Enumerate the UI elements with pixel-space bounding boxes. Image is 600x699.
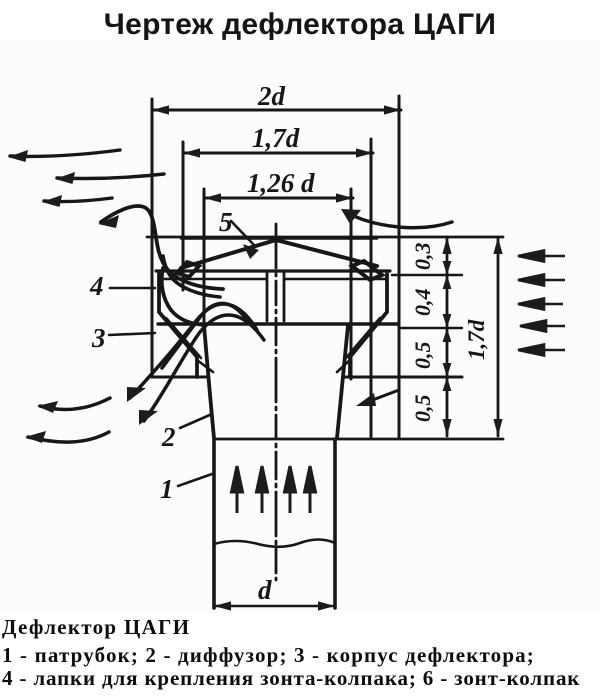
- pipe up arrow 1: [232, 466, 243, 513]
- cap top line: [147, 236, 503, 239]
- body left wall: [159, 274, 197, 377]
- pipe right wall: [333, 439, 337, 608]
- svg-text:3: 3: [91, 323, 106, 353]
- streamline S2 out of gap: [162, 268, 204, 325]
- right dim grid tick row 275: [392, 274, 462, 276]
- bracket right cap: [352, 261, 382, 280]
- body right foot link: [337, 360, 350, 372]
- body left foot link: [197, 360, 213, 372]
- arrowhead dim 1.7d left: [183, 148, 200, 157]
- svg-text:2d: 2d: [257, 81, 286, 111]
- right dim outer vertical: [497, 237, 500, 436]
- swoosh c2: [28, 432, 109, 442]
- body left inner chamfer: [166, 318, 201, 358]
- dim 1.7d line: [183, 152, 373, 155]
- arrowhead c1 tip: [37, 401, 58, 413]
- right dim inner vertical: [446, 237, 449, 436]
- arrowhead R1 tip: [127, 387, 146, 402]
- arrowhead vdim outer bottom: [493, 419, 502, 436]
- dim 2d line: [152, 109, 401, 112]
- cap cone: [181, 240, 377, 268]
- svg-text:1,7d: 1,7d: [252, 123, 300, 153]
- dim 1.26d line: [204, 197, 353, 200]
- dim 1.26d ext right: [350, 189, 353, 379]
- arrowhead vdim inner top: [442, 237, 451, 254]
- cap plate overlay: [181, 237, 377, 239]
- svg-text:0,3: 0,3: [410, 243, 435, 271]
- right arc over cap: [345, 212, 452, 228]
- slot left: [266, 272, 269, 321]
- svg-text:4: 4: [89, 271, 104, 301]
- pipe left wall: [212, 439, 216, 608]
- svg-text:0,5: 0,5: [410, 395, 435, 423]
- svg-text:0,4: 0,4: [410, 289, 435, 317]
- arrowhead R2 tip: [139, 410, 158, 425]
- right entering arrow line: [362, 390, 399, 404]
- body mid line: [158, 322, 397, 325]
- pipe up arrow 4: [305, 466, 316, 513]
- wind arrow 2: [518, 275, 565, 286]
- body bottom ring right: [343, 376, 462, 379]
- arrowhead dim 1.26d left: [204, 193, 221, 202]
- streamline fan R2: [144, 315, 264, 421]
- pipe up arrow 2: [257, 466, 268, 513]
- leader 1: [178, 474, 212, 486]
- slot right: [283, 272, 286, 321]
- svg-text:2: 2: [161, 422, 176, 452]
- arrowhead vdim inner 329: [443, 314, 452, 342]
- streamline top A2: [57, 174, 164, 179]
- streamline fan R3: [162, 303, 249, 368]
- arrowhead dim d left: [214, 601, 231, 610]
- arrowhead right arc tip: [341, 209, 361, 224]
- streamline top A1: [10, 150, 120, 156]
- svg-text:1,7d: 1,7d: [464, 319, 489, 360]
- arrowhead dim d right: [318, 601, 335, 610]
- wind arrow 3: [518, 299, 563, 310]
- dim 1.7d ext right: [370, 139, 373, 438]
- arrowhead A4 S1 tip: [98, 215, 119, 228]
- title: [0, 8, 600, 42]
- body top line: [156, 269, 390, 272]
- svg-text:1,26 d: 1,26 d: [247, 168, 315, 198]
- dim 2d ext right: [398, 96, 401, 438]
- leader 5 arrowline: [231, 221, 254, 245]
- body bottom ring left: [152, 376, 207, 379]
- pipe break wavy line: [214, 540, 335, 547]
- body top inner line: [160, 278, 386, 280]
- streamline S1 out of gap: [101, 206, 223, 289]
- streamline S3: [163, 256, 220, 297]
- arrowhead dim 2d right: [384, 105, 401, 114]
- diffuser bottom line: [214, 438, 503, 441]
- swoosh c1: [40, 398, 110, 410]
- arrowhead leader5: [243, 244, 259, 259]
- arrowhead A3: [42, 195, 62, 207]
- wind arrow 5: [518, 345, 565, 356]
- dim 2d ext left: [151, 99, 154, 377]
- svg-text:5: 5: [219, 207, 233, 237]
- streamline fan R1: [130, 304, 257, 398]
- arrowhead vdim inner 275: [443, 261, 452, 289]
- streamline top A3: [44, 198, 112, 202]
- dim 1.7d ext left: [182, 142, 185, 290]
- centerline: [275, 224, 278, 580]
- arrowhead dim 2d left: [152, 105, 169, 114]
- svg-text:d: d: [258, 575, 272, 605]
- arrowhead dim 1.26d right: [336, 193, 353, 202]
- arrowhead vdim inner 378: [443, 363, 452, 391]
- arrowhead c2 tip: [25, 431, 46, 443]
- arrowhead A1: [8, 150, 28, 162]
- body right inner chamfer: [346, 318, 380, 358]
- body right wall: [350, 274, 387, 377]
- wind arrow 1: [518, 251, 565, 262]
- wind arrow 4: [520, 321, 565, 332]
- leader 3: [109, 333, 155, 335]
- right dim grid tick row 329: [399, 327, 462, 329]
- leader 2: [180, 414, 212, 428]
- svg-text:1: 1: [160, 474, 174, 504]
- dim 1.26d ext left: [203, 189, 206, 325]
- diffuser left wall: [204, 325, 214, 438]
- arrowhead vdim inner bottom: [442, 419, 451, 436]
- arrowhead vdim outer top: [493, 237, 502, 254]
- bracket left cap: [177, 262, 199, 277]
- arrowhead right entering tip: [356, 393, 376, 406]
- leader 4: [110, 287, 155, 290]
- dim d line: [214, 605, 335, 608]
- arrowhead A2: [55, 172, 75, 184]
- svg-text:0,5: 0,5: [410, 342, 435, 370]
- diffuser right wall: [337, 325, 348, 438]
- pipe up arrow 3: [285, 466, 296, 513]
- arrowhead dim 1.7d right: [356, 148, 373, 157]
- legend: [0, 0, 600, 1]
